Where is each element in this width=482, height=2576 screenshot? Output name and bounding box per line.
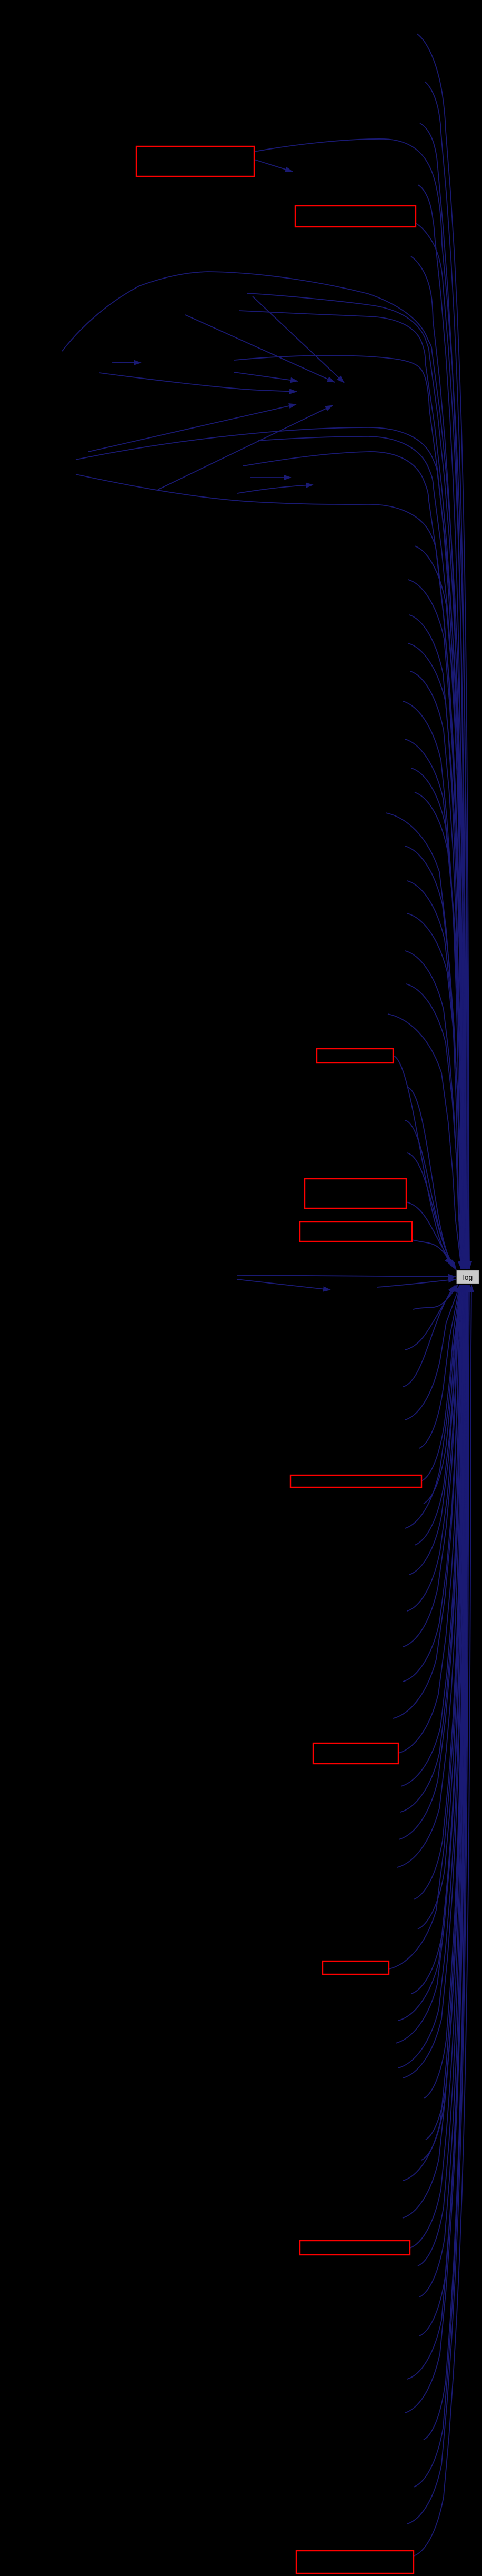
- edge from node a4: [418, 185, 465, 1269]
- edge from node p2: [405, 1285, 456, 1350]
- arc from node c1: [62, 272, 467, 1269]
- edge from node q33: [419, 1285, 467, 2336]
- edge from box3: [393, 1056, 451, 1265]
- edge from node q23: [398, 1285, 465, 2068]
- edge from node q26: [426, 1285, 466, 2140]
- edge from node c2: [247, 293, 466, 1269]
- edge from node m16: [388, 1014, 461, 1269]
- edge from node a2: [425, 82, 468, 1269]
- edge from node m13: [407, 913, 465, 1269]
- arrow c5 to node b2: [185, 315, 335, 382]
- edge from node q8: [407, 1285, 461, 1611]
- edge from node m3: [409, 615, 462, 1269]
- edge from node q38: [407, 1285, 469, 2524]
- edge from node p1: [413, 1285, 458, 1309]
- edge from node q36: [424, 1285, 468, 2440]
- edge from node q19: [389, 1285, 464, 1969]
- edge from box5: [412, 1240, 456, 1270]
- edge from node q6: [415, 1285, 461, 1545]
- edge from node a5: [411, 256, 464, 1269]
- box7 (truncated caller node): [313, 1743, 398, 1764]
- edge from node q7: [409, 1285, 461, 1575]
- edge from node q21: [398, 1285, 465, 2021]
- arrow box1 to node b1: [254, 160, 293, 172]
- edge from node q2: [419, 1285, 460, 1448]
- edge from node q27: [421, 1285, 466, 2160]
- edge from node m6: [403, 701, 461, 1269]
- edge from node a1: [417, 34, 469, 1269]
- edge node d1 to log: [377, 1279, 456, 1287]
- edge from node m14: [405, 951, 463, 1269]
- edge from node q35: [405, 1285, 468, 2413]
- edge from box2 to channel: [416, 223, 467, 1269]
- edge from node q20: [411, 1285, 464, 1994]
- edge from node q37: [414, 1285, 468, 2487]
- svg-text:log: log: [463, 1273, 473, 1281]
- edge from node n2: [405, 1120, 454, 1267]
- curve g1: [76, 427, 467, 1269]
- edge from node m15: [406, 984, 464, 1269]
- edge from node q34: [407, 1285, 467, 2379]
- edge from node c4: [234, 355, 464, 1269]
- box1 (truncated caller node): [136, 146, 254, 176]
- curve g3: [243, 452, 465, 1269]
- box10 (truncated caller node): [296, 2551, 414, 2573]
- edge from node m10: [386, 813, 461, 1269]
- edge from node n3: [407, 1153, 455, 1268]
- edge from node q10: [403, 1285, 462, 1682]
- diag to node b5: [88, 404, 296, 452]
- edge from node q24: [403, 1285, 465, 2078]
- edge from node m4: [408, 643, 464, 1269]
- edge from node c3: [239, 311, 465, 1269]
- edge from node m8: [411, 768, 465, 1269]
- box6 (truncated caller node): [290, 1475, 421, 1487]
- edge from node m1: [415, 546, 465, 1269]
- function node log: [457, 1270, 479, 1284]
- diag to node b6: [158, 405, 333, 490]
- edge from node m5: [410, 671, 463, 1269]
- edge from node q18: [418, 1285, 464, 1929]
- edge from node m7: [405, 739, 464, 1269]
- edge from node q13: [401, 1285, 463, 1786]
- box8 (truncated caller node): [323, 1961, 389, 1974]
- box4 (truncated caller node): [305, 1179, 406, 1208]
- arrow a2 to node: [112, 362, 141, 363]
- edge from node q1: [405, 1285, 460, 1420]
- arrow g6: [237, 485, 313, 493]
- box5 (truncated caller node): [300, 1222, 412, 1241]
- edge from box4: [406, 1202, 455, 1268]
- arrow g5: [250, 477, 291, 478]
- arrow node450 to node b7: [237, 1279, 330, 1290]
- arrow c6 to node b3: [253, 296, 344, 383]
- arrow from node a2b: [234, 372, 298, 381]
- edge from node m9: [415, 792, 466, 1269]
- curve g2: [258, 436, 466, 1269]
- box9 (truncated caller node): [300, 2241, 410, 2255]
- edge from node q39: [414, 1285, 471, 2556]
- edge from node q25: [424, 1285, 465, 2098]
- edge from node q5: [405, 1285, 461, 1528]
- edge from node q14: [400, 1285, 463, 1812]
- edge from node q17: [414, 1285, 464, 1899]
- edge from node n1: [407, 1087, 453, 1266]
- edge from node q16: [397, 1285, 464, 1867]
- edge a3 to node b4: [99, 373, 297, 392]
- edge from node q32: [419, 1285, 467, 2297]
- edge from node q9: [403, 1285, 461, 1647]
- edge from node q28: [403, 1285, 466, 2181]
- curve g4: [76, 474, 464, 1269]
- edge from node a3: [420, 123, 466, 1269]
- edge from node m12: [407, 881, 464, 1269]
- edge from node p3: [403, 1286, 455, 1387]
- box3 (truncated caller node): [317, 1049, 393, 1063]
- edge from node q12: [398, 1285, 463, 1753]
- edge from node m11: [405, 846, 463, 1269]
- edge from node q22: [396, 1285, 465, 2043]
- edge from node q29: [403, 1285, 466, 2218]
- edge from node m2: [408, 580, 463, 1269]
- box2 (truncated caller node): [295, 206, 416, 227]
- edge from node q11: [393, 1285, 462, 1718]
- edge node450 to log: [237, 1275, 456, 1277]
- edge from node q15: [399, 1285, 463, 1839]
- edge from box1 to channel: [254, 139, 469, 1269]
- edge from node q3: [421, 1285, 460, 1481]
- edge from node q31: [418, 1285, 466, 2266]
- edge from node q30: [410, 1285, 466, 2248]
- edge from node q4: [424, 1285, 460, 1504]
